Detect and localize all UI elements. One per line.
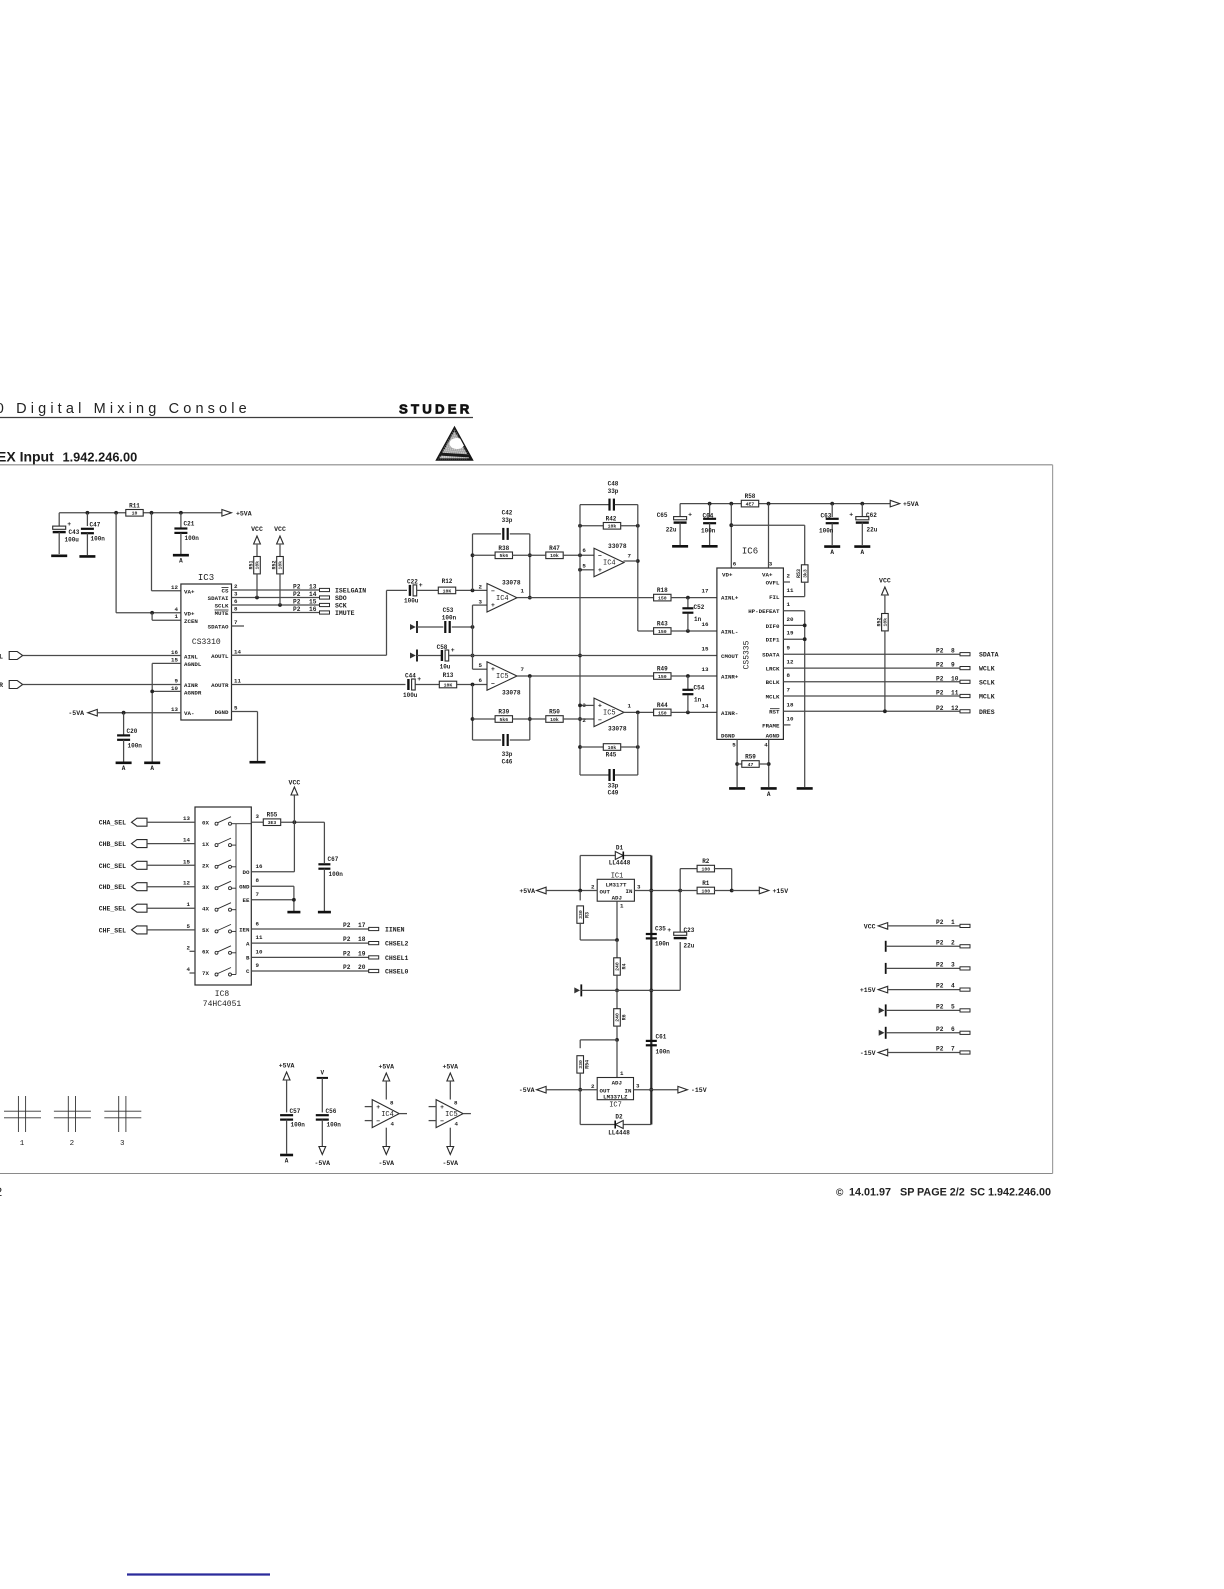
svg-text:100n: 100n [819,527,834,534]
op-amp IC4 (A) 33078 [479,580,525,612]
net V tick (C56 top) [317,1070,328,1113]
wire AGND pin4 down [767,739,771,787]
wire VA+ branch to IC6 pin3 [768,504,770,568]
svg-text:DGND: DGND [721,732,735,739]
wire CHF_SEL [147,929,195,931]
svg-text:A: A [860,549,864,556]
svg-text:11: 11 [951,690,959,697]
wire IC1 IN row [634,889,682,893]
wire IC7 OUT row [546,1089,597,1091]
power flag +5VA (IC1 out) [519,887,546,895]
svg-text:R59: R59 [745,754,756,761]
wire IC4B out vertical V7 [624,505,655,631]
svg-text:100n: 100n [185,535,200,542]
svg-text:5: 5 [951,1003,955,1010]
svg-text:SDATA: SDATA [762,652,780,659]
svg-text:-5VA: -5VA [314,1160,330,1167]
svg-text:+15V: +15V [773,888,789,895]
svg-text:VCC: VCC [289,780,301,787]
svg-text:8: 8 [787,672,791,679]
svg-text:5: 5 [234,704,238,711]
power +5VA symbol (IC5 spare) [442,1064,458,1100]
svg-text:10k: 10k [255,561,261,570]
svg-text:SC: SC [970,1187,985,1199]
ground A under C20 [116,763,132,772]
resistor R59 47 [737,754,769,768]
resistor R52 10k pull-up [272,545,284,605]
ground under IC3 DGND [250,761,266,764]
svg-text:BCLK: BCLK [766,679,780,686]
svg-text:5k6: 5k6 [499,717,508,723]
VCC symbol above R51 [251,526,263,546]
svg-text:R1: R1 [702,880,710,887]
svg-text:33078: 33078 [608,543,627,550]
svg-text:−: − [491,588,495,595]
alignment mark 1 [4,1096,41,1148]
op-amp/IC IC3 CS3310 [171,583,241,720]
svg-text:CHA_SEL: CHA_SEL [99,820,126,827]
IC7 label [609,1102,622,1110]
input connector CHE_SEL [99,904,147,913]
svg-text:CS: CS [222,588,229,595]
resistor R39 5k6 feedback [473,709,530,723]
svg-text:9: 9 [787,645,791,652]
resistor R4 240 [614,940,628,992]
svg-text:6: 6 [234,598,238,605]
svg-text:EX Input: EX Input [0,449,54,465]
stub pin 4 (7X) [190,972,196,974]
unregulated rail thick vertical [649,856,653,1125]
svg-text:−: − [440,1118,444,1125]
subtitle: EX Input 1.942.246.00 [0,449,137,465]
svg-text:2: 2 [234,583,238,590]
svg-text:1.942.246.00: 1.942.246.00 [63,450,138,465]
frame right edge [1052,465,1054,1174]
svg-text:P2: P2 [936,1003,944,1010]
wire CHD_SEL [147,886,195,888]
capacitor C46 33p [473,734,530,765]
wire VA+ branch [152,513,181,591]
svg-text:DRES: DRES [979,709,995,716]
svg-text:P2: P2 [936,939,944,946]
svg-text:33p: 33p [502,517,513,524]
svg-text:4X: 4X [202,905,209,912]
svg-text:100n: 100n [701,527,716,534]
svg-text:P2: P2 [293,599,301,606]
svg-text:2: 2 [951,939,955,946]
svg-text:7: 7 [234,619,238,626]
svg-text:IMUTE: IMUTE [335,610,355,617]
svg-text:IC4: IC4 [496,595,509,603]
svg-text:+5VA: +5VA [378,1064,394,1071]
svg-text:150: 150 [658,710,667,716]
power -5VA symbol (IC5 spare) [442,1128,458,1167]
svg-text:9: 9 [256,962,260,969]
svg-text:2X: 2X [202,863,209,870]
svg-text:DIF1: DIF1 [766,637,780,644]
svg-text:-5VA: -5VA [68,710,84,717]
svg-text:12: 12 [183,880,190,887]
capacitor C42 33p [473,510,530,540]
svg-text:13: 13 [183,815,190,822]
wire GND pin8 + EE pin7 [251,886,295,911]
wire CS row to P2 13 [232,589,320,591]
svg-text:10: 10 [256,948,263,955]
svg-text:C46: C46 [502,758,513,765]
svg-text:150: 150 [658,674,667,680]
pin 10 FRAME stub [783,724,790,726]
svg-text:10k: 10k [550,717,559,723]
wire CHC_SEL [147,864,195,866]
svg-text:C63: C63 [821,512,832,519]
wire AINL input [23,655,181,657]
svg-text:FIL: FIL [769,594,780,601]
svg-text:3k3: 3k3 [802,569,808,578]
svg-text:R42: R42 [606,515,617,522]
diode D1 LL4448 [580,845,651,891]
op-amp IC5 (B) 33078 [582,698,631,732]
resistor R44 150 [654,702,717,716]
svg-text:FRAME: FRAME [762,722,780,729]
power flag +15V (to regulator) [732,887,789,895]
svg-text:AGNDR: AGNDR [184,690,202,697]
ground under DIF chain [797,787,813,790]
svg-text:0X: 0X [202,819,209,826]
svg-text:1: 1 [620,1070,624,1077]
power flag -5VA (IC7 out) [519,1086,546,1094]
svg-text:C: C [246,968,250,975]
wire WCLK row [783,667,960,669]
svg-text:4: 4 [764,742,768,749]
svg-text:11: 11 [234,677,241,684]
svg-text:3E3: 3E3 [268,820,277,826]
svg-text:IINEN: IINEN [385,927,405,934]
svg-text:2: 2 [70,1140,75,1148]
svg-text:14.01.97: 14.01.97 [849,1187,891,1199]
svg-text:330: 330 [578,910,584,919]
connector P2 11 stub + net MCLK [936,690,995,701]
svg-text:240: 240 [615,1013,621,1022]
resistor R54 330 [577,1040,591,1092]
svg-text:B: B [246,955,250,962]
svg-text:15: 15 [309,599,317,606]
svg-text:C49: C49 [608,790,619,797]
svg-text:150: 150 [658,629,667,635]
svg-text:100u: 100u [403,692,418,699]
capacitor C54 1n [682,676,704,712]
capacitor C67 100n [318,822,343,911]
wire IC4B plus input stub [578,568,594,572]
svg-text:C21: C21 [184,521,195,528]
VCC symbol above IC8 [289,780,301,823]
svg-text:AINL+: AINL+ [721,595,739,602]
svg-text:4: 4 [175,606,179,613]
resistor R45 10k feedback [580,744,640,759]
capacitor C56 100n [316,1108,342,1147]
svg-text:VCC: VCC [274,526,286,533]
svg-text:15: 15 [171,657,178,664]
svg-text:330: 330 [578,1060,584,1069]
svg-text:100n: 100n [91,536,106,543]
power flag +5VA (top-left) [222,510,252,518]
power -5VA symbol (C56) [314,1147,330,1168]
svg-text:CHE_SEL: CHE_SEL [99,906,126,913]
wire DRES row [783,709,960,713]
wire mid reference rail [581,942,680,990]
svg-text:1: 1 [175,613,179,620]
svg-text:14: 14 [183,837,190,844]
input connector L [0,652,23,661]
svg-text:P2: P2 [343,936,351,943]
resistor R18 150 [654,587,717,601]
svg-text:P2: P2 [936,919,944,926]
svg-text:100n: 100n [327,1122,342,1129]
footer revision text [836,1187,1051,1199]
svg-text:LRCK: LRCK [766,666,780,673]
capacitor C52 1n [682,598,704,631]
svg-text:C22: C22 [407,579,418,586]
svg-text:DO: DO [243,869,250,876]
connector P2 5 row [879,1003,970,1016]
wire CHSEL2 row [251,942,368,944]
svg-text:P2: P2 [936,675,944,682]
svg-text:AGND: AGND [766,732,780,739]
svg-text:1X: 1X [202,841,209,848]
svg-text:6: 6 [733,561,737,568]
svg-text:-15V: -15V [691,1087,707,1094]
input connector CHC_SEL [99,861,147,870]
svg-text:8: 8 [390,1100,394,1107]
svg-text:VA+: VA+ [762,572,773,579]
svg-text:P2: P2 [936,648,944,655]
svg-text:IC5: IC5 [496,673,509,681]
svg-text:OUT: OUT [600,888,611,895]
svg-text:SDATAO: SDATAO [208,624,229,631]
svg-text:IC7: IC7 [609,1102,622,1110]
svg-text:C54: C54 [694,685,705,692]
svg-text:CHSEL0: CHSEL0 [385,969,409,976]
svg-text:SDATA: SDATA [979,652,999,659]
connector P2 8 stub + net SDATA [936,648,999,659]
frame bottom line [0,1173,1053,1175]
svg-text:1: 1 [951,919,955,926]
svg-text:MUTE: MUTE [215,610,229,617]
svg-text:C20: C20 [127,728,138,735]
op-amp IC4 (B) 33078 [582,543,631,577]
svg-text:20: 20 [787,616,794,623]
connector P2 16 stub + net IMUTE [293,606,355,617]
alignment mark 2 [54,1096,91,1148]
connector P2 20 stub + net CHSEL0 [343,964,409,976]
svg-text:6: 6 [256,920,260,927]
svg-text:11: 11 [787,587,794,594]
svg-text:7: 7 [628,553,632,560]
svg-text:VCC: VCC [864,923,876,930]
svg-text:1: 1 [620,903,624,910]
svg-text:8: 8 [256,877,260,884]
svg-text:33078: 33078 [502,580,521,587]
IC8 name labels [203,990,242,1009]
svg-text:7: 7 [787,686,791,693]
svg-text:240: 240 [615,962,621,971]
ground under C64 [702,545,718,548]
resistor R13 10k [439,672,456,688]
svg-text:P2: P2 [936,690,944,697]
header rule under title/STUDER [0,417,473,419]
svg-text:18: 18 [358,936,366,943]
svg-text:20: 20 [358,964,366,971]
power flag +5VA (IC6 rail) [890,500,919,508]
pin 20 DIF0 stub [783,624,806,628]
capacitor C57 100n [280,1108,305,1154]
wire bias vertical V2 [473,605,488,669]
ESD warning triangle logo [417,408,480,462]
svg-text:R18: R18 [657,587,668,594]
svg-text:AINR-: AINR- [721,710,738,717]
svg-text:+: + [417,676,421,683]
ground A (AGND chain) [144,763,160,772]
wire C53 to bias rail [452,625,475,629]
connector P2 6 row [879,1026,970,1039]
svg-text:10u: 10u [440,664,451,671]
resistor R38 5k6 feedback [473,545,530,559]
connector P2 19 stub + net CHSEL1 [343,950,409,962]
svg-text:IC5: IC5 [445,1111,458,1119]
wire pin3 out + resistor R55 3E3 [251,812,324,826]
svg-text:A: A [830,549,834,556]
connector P2 2 row [886,939,970,952]
svg-text:1: 1 [521,588,525,595]
svg-text:D1: D1 [616,845,624,852]
svg-text:R44: R44 [657,702,668,709]
svg-text:R45: R45 [606,752,617,759]
connector P2 3 row [886,961,970,974]
svg-text:10k: 10k [550,553,559,559]
svg-text:P2: P2 [936,983,944,990]
capacitor C20 100n [117,713,142,762]
svg-text:3: 3 [234,591,238,598]
svg-text:33p: 33p [608,488,619,495]
svg-text:SDATAI: SDATAI [208,595,229,602]
svg-text:12: 12 [171,584,178,591]
capacitor C47 100n [81,513,105,555]
svg-text:R49: R49 [657,666,668,673]
ground under DGND [729,787,745,790]
wire CHB_SEL [147,843,195,845]
resistor R1 100 [680,880,733,894]
connector P2 17 stub + net IINEN [343,922,405,934]
svg-text:100n: 100n [329,871,344,878]
svg-text:SP: SP [900,1187,914,1199]
svg-text:AINL: AINL [184,654,198,661]
capacitor C49 33p [580,712,638,796]
svg-text:R54: R54 [585,1060,591,1069]
ground under C43 [51,554,67,557]
pin 2 OVFL stub [783,581,790,583]
wire SCLK row to P2 15 [232,603,320,607]
connector P2 9 stub + net WCLK [936,662,995,673]
svg-text:SDO: SDO [335,595,347,602]
wire AOUTR to C44 [232,684,406,686]
resistor R58 4E7 [741,493,758,507]
wire FILT branch + resistor R53 3k3 [731,525,808,596]
svg-text:2: 2 [479,584,483,591]
svg-text:R11: R11 [129,502,140,509]
svg-text:-5VA: -5VA [442,1160,458,1167]
resistor R11 10 [126,502,143,516]
svg-text:100n: 100n [656,1049,671,1056]
ground under C67 [318,911,331,914]
svg-text:10: 10 [787,715,794,722]
svg-text:8: 8 [454,1100,458,1107]
svg-text:R55: R55 [267,812,278,819]
svg-text:1: 1 [20,1140,25,1148]
svg-text:VD+: VD+ [722,572,733,579]
connector P2 7 row net -15V [860,1046,970,1058]
svg-text:3: 3 [951,961,955,968]
svg-text:MCLK: MCLK [766,693,780,700]
svg-text:C42: C42 [502,510,513,517]
svg-text:HP-DEFEAT: HP-DEFEAT [748,608,780,615]
capacitor C62 22u [849,504,877,545]
svg-text:GND: GND [239,883,250,890]
ground under C65 [672,545,688,548]
wire IC5B plus input stub [578,704,594,708]
svg-text:IEN: IEN [239,927,250,934]
svg-text:100n: 100n [442,615,457,622]
ground A under C21 [173,555,189,564]
svg-text:22u: 22u [666,527,677,534]
svg-text:©: © [836,1188,844,1199]
svg-text:13: 13 [171,706,178,713]
svg-text:VCC: VCC [251,526,263,533]
IC6 label [742,547,758,557]
wire VD+ branch [116,513,181,615]
input connector CHB_SEL [99,840,147,849]
svg-text:EE: EE [243,897,250,904]
svg-text:AOUTL: AOUTL [211,653,229,660]
svg-text:6: 6 [582,547,586,554]
capacitor C22 100u [404,579,423,605]
svg-text:SCLK: SCLK [979,679,995,686]
stub pin 2 (6X) [190,950,196,952]
svg-text:5k6: 5k6 [499,553,508,559]
svg-text:4: 4 [951,983,955,990]
svg-text:9: 9 [175,678,179,685]
svg-text:R52: R52 [272,560,278,569]
svg-text:R4: R4 [621,963,627,969]
input connector CHF_SEL [99,926,147,935]
svg-text:2: 2 [787,573,791,580]
svg-text:-15V: -15V [860,1050,876,1057]
resistor R47 10k [530,545,594,559]
IC1 label [611,873,624,881]
svg-text:P2: P2 [293,584,301,591]
svg-text:47: 47 [748,762,754,768]
capacitor C53 100n [417,607,457,633]
wire AOUTL to C22 row [232,590,408,655]
svg-text:3: 3 [479,599,483,606]
wire C44 to R13 [416,684,440,686]
svg-text:C67: C67 [328,856,339,863]
connector P2 10 stub + net SCLK [936,675,995,686]
power flag -15V (to regulator) [678,1086,707,1094]
svg-text:CS5335: CS5335 [743,640,752,669]
svg-text:C64: C64 [703,512,714,519]
wire +5VA rail top-left [59,511,222,515]
svg-text:2: 2 [582,717,586,724]
svg-text:PAGE 2/2: PAGE 2/2 [917,1187,965,1199]
